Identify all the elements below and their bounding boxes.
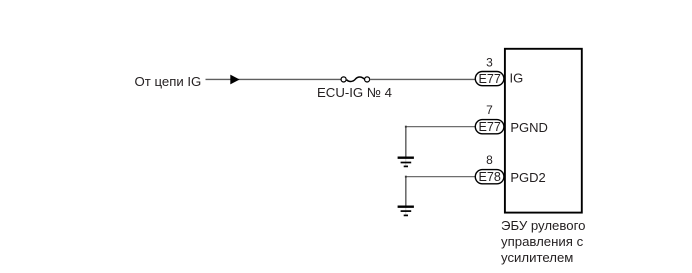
svg-text:PGD2: PGD2 xyxy=(510,170,545,185)
svg-text:3: 3 xyxy=(486,55,493,69)
svg-text:IG: IG xyxy=(510,71,524,86)
svg-text:управления с: управления с xyxy=(501,234,584,249)
svg-text:ECU-IG № 4: ECU-IG № 4 xyxy=(317,85,392,100)
svg-text:ЭБУ рулевого: ЭБУ рулевого xyxy=(501,218,585,233)
svg-text:От цепи IG: От цепи IG xyxy=(135,74,202,89)
svg-text:E78: E78 xyxy=(479,170,501,184)
svg-text:E77: E77 xyxy=(479,120,501,134)
svg-text:7: 7 xyxy=(486,103,493,117)
svg-text:E77: E77 xyxy=(479,72,501,86)
svg-text:PGND: PGND xyxy=(510,120,548,135)
svg-text:усилителем: усилителем xyxy=(501,250,573,265)
svg-text:8: 8 xyxy=(486,153,493,167)
